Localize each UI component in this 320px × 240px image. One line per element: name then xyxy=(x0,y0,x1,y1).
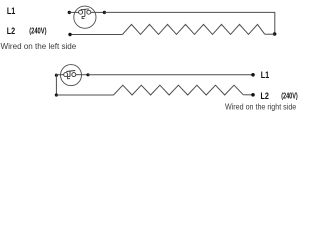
label L1 top xyxy=(7,6,16,16)
wire riser xyxy=(55,75,57,95)
wire thermostat T1 to junction xyxy=(91,11,105,13)
thermostat T2 bimetal staircase xyxy=(68,77,71,79)
wire right drop xyxy=(274,12,276,34)
thermostat T1 bimetal staircase xyxy=(82,16,85,18)
wire to L1 terminal (bottom circuit) xyxy=(88,74,253,76)
junction dot riser top (bottom circuit) xyxy=(55,74,58,77)
svg-text:(240V): (240V) xyxy=(29,28,46,36)
wire element R2 to L2 terminal xyxy=(243,94,253,96)
junction dot after T2 xyxy=(86,73,89,76)
label L2 right xyxy=(261,91,270,101)
junction dot at element end xyxy=(273,32,277,36)
label L1 right xyxy=(261,70,270,80)
wire L1 dot to thermostat T1 xyxy=(69,11,78,13)
caption wired on the right side xyxy=(225,102,296,112)
node L2 (top circuit) xyxy=(68,33,71,36)
label L2 top xyxy=(7,26,16,36)
thermostat T2 body circle xyxy=(61,65,82,86)
heating element R2 zigzag xyxy=(114,85,244,95)
svg-text:L1: L1 xyxy=(261,70,270,80)
junction dot riser bottom xyxy=(55,93,58,96)
wire riser to thermostat T2 xyxy=(56,74,63,76)
thermostat T1 blade bar xyxy=(81,8,89,11)
thermostat T1 right contact xyxy=(87,10,91,14)
wire thermostat T2 to junction xyxy=(76,74,88,76)
thermostat T1 left contact xyxy=(79,10,83,14)
svg-text:L2: L2 xyxy=(7,26,16,36)
junction dot after T1 xyxy=(103,11,106,14)
heating element R1 zigzag xyxy=(122,24,264,34)
label (240V) top xyxy=(29,28,46,36)
svg-text:Wired on the right side: Wired on the right side xyxy=(225,102,296,112)
wire junction to element R1 xyxy=(265,33,275,35)
svg-text:Wired on the left side: Wired on the left side xyxy=(1,41,77,51)
thermostat T1 body circle xyxy=(74,6,96,28)
label (240V) right xyxy=(281,93,298,101)
svg-text:L1: L1 xyxy=(7,6,16,16)
node L2 terminal dot (bottom circuit) xyxy=(251,93,255,97)
caption wired on the left side xyxy=(1,41,77,51)
wire top run to right corner xyxy=(104,11,274,13)
thermostat T2 blade bar xyxy=(66,71,75,72)
thermostat T2 left contact xyxy=(64,73,68,77)
svg-text:L2: L2 xyxy=(261,91,270,101)
node L1 (top circuit) xyxy=(68,11,71,14)
wire element R1 to L2 dot xyxy=(70,34,122,36)
thermostat T2 stem xyxy=(69,71,71,77)
node L1 terminal dot (bottom circuit) xyxy=(251,73,255,77)
thermostat T2 right contact xyxy=(72,73,76,77)
svg-text:(240V): (240V) xyxy=(281,93,298,101)
thermostat T1 stem xyxy=(84,9,86,16)
wire riser bottom to element R2 xyxy=(56,94,113,96)
